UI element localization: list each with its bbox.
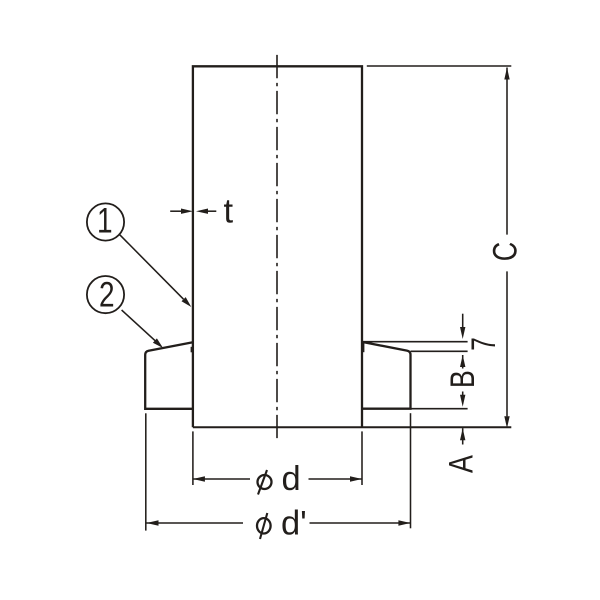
svg-text:A: A [441, 455, 480, 473]
svg-text:2: 2 [99, 274, 115, 314]
svg-text:1: 1 [97, 201, 113, 241]
svg-text:t: t [224, 192, 234, 230]
svg-text:B: B [443, 370, 482, 388]
svg-text:d: d [282, 460, 301, 498]
svg-text:7: 7 [465, 337, 503, 350]
svg-text:d': d' [281, 505, 307, 543]
svg-text:C: C [485, 242, 524, 261]
